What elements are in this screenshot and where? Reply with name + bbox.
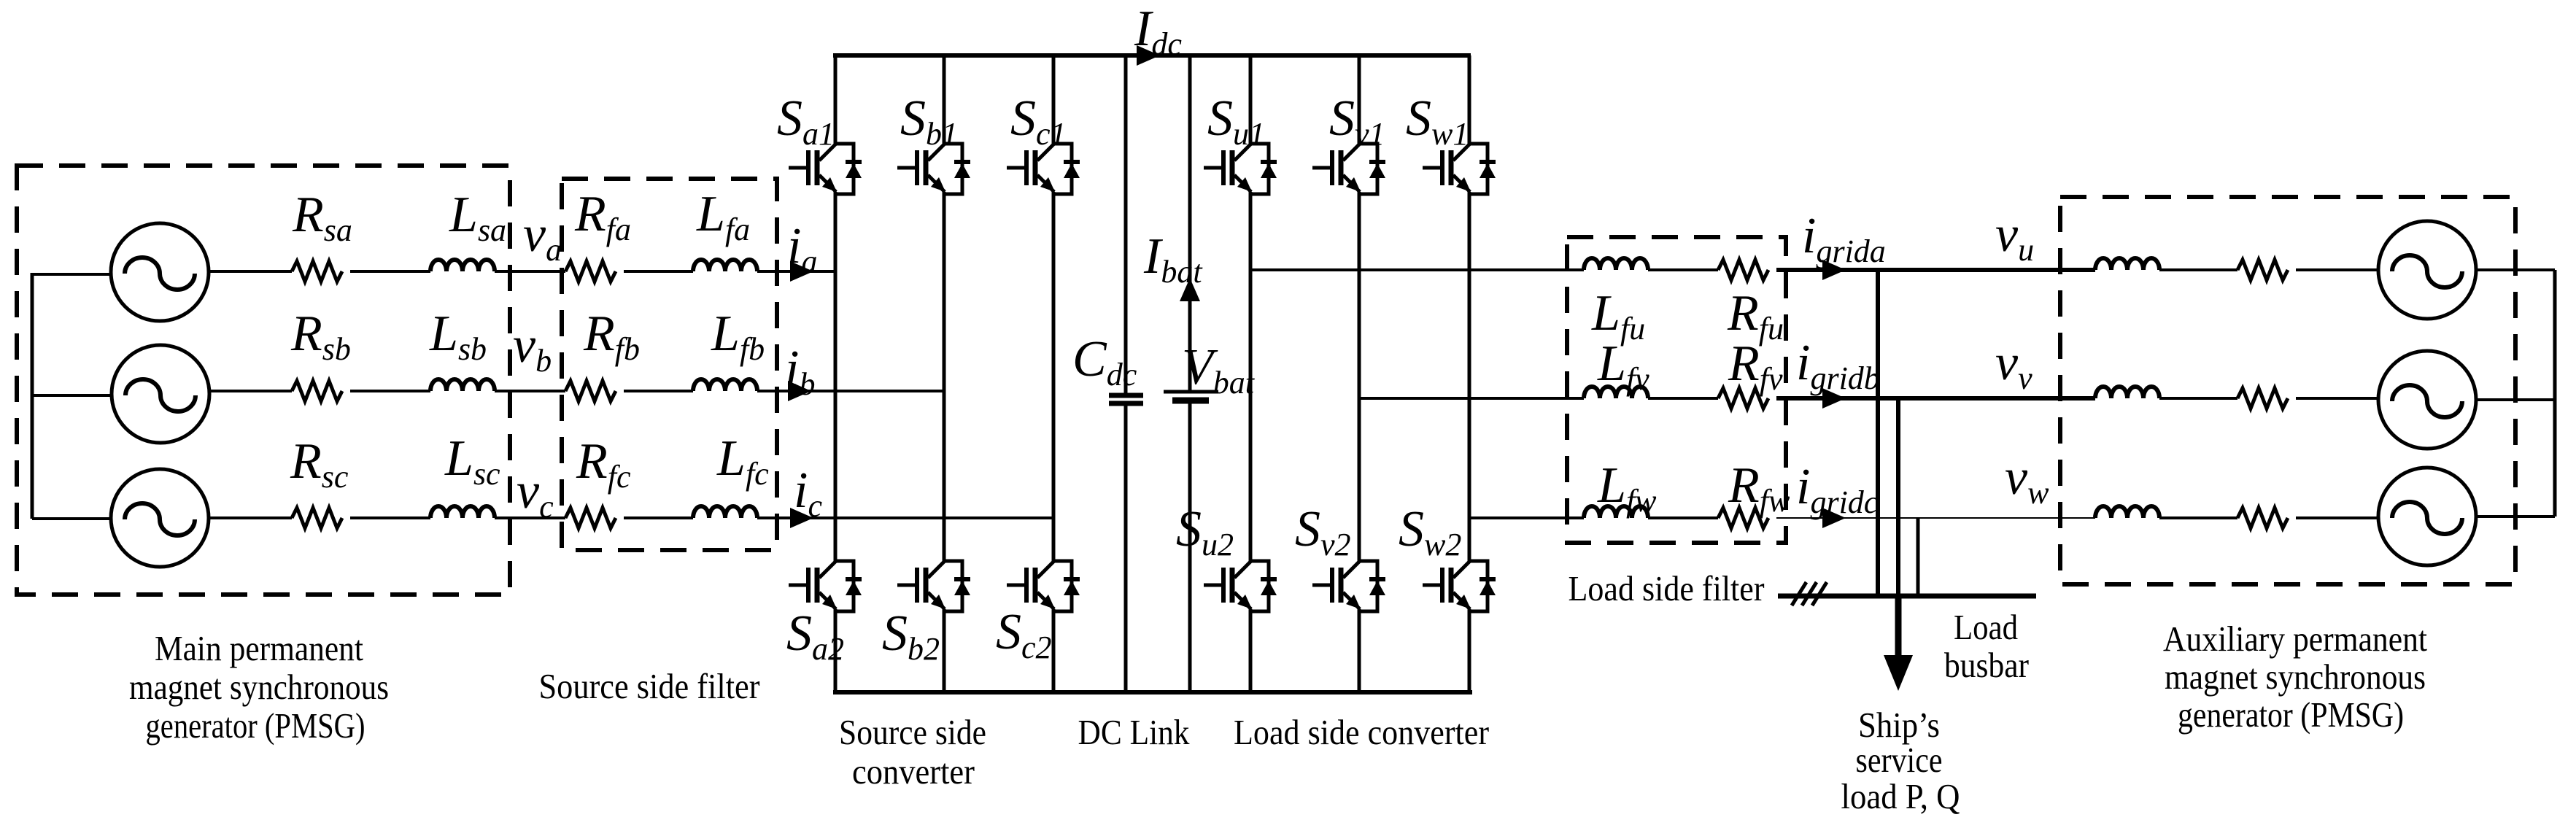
resistor aux u xyxy=(2237,260,2288,280)
wire busbar drop v xyxy=(1896,398,1900,596)
svg-text:generator (PMSG): generator (PMSG) xyxy=(146,705,365,746)
wire phase c xyxy=(209,516,1053,519)
inductor Lsa xyxy=(430,260,495,271)
wire stub phase c xyxy=(32,517,111,520)
svg-text:Main permanent: Main permanent xyxy=(155,628,363,668)
transistor Sa1 xyxy=(789,144,862,194)
AC source aux phase u xyxy=(2378,221,2476,319)
wire stub phase a xyxy=(32,273,111,276)
inductor aux v xyxy=(2095,387,2159,398)
svg-text:busbar: busbar xyxy=(1944,645,2029,685)
wire DC top bus xyxy=(833,53,1471,58)
ground hatch xyxy=(1792,582,1827,605)
wire phase w xyxy=(1469,516,1718,519)
svg-text:service: service xyxy=(1856,740,1943,780)
inductor Lfa xyxy=(693,260,757,271)
AC source aux phase v xyxy=(2378,351,2476,449)
inductor Lfu xyxy=(1584,258,1648,270)
wire column b xyxy=(943,55,946,692)
svg-text:generator (PMSG): generator (PMSG) xyxy=(2178,694,2404,735)
wire phase b xyxy=(209,390,944,392)
resistor aux w xyxy=(2237,508,2288,528)
inductor Lsc xyxy=(430,506,495,518)
resistor Rfb xyxy=(565,381,616,401)
resistor Rfa xyxy=(565,261,616,282)
resistor Rsb xyxy=(292,381,342,401)
resistor Rsa xyxy=(292,261,342,282)
inductor aux w xyxy=(2095,506,2159,518)
svg-text:DC Link: DC Link xyxy=(1078,712,1190,752)
transistor Sb1 xyxy=(897,144,970,194)
AC source main phase c xyxy=(111,469,209,567)
inductor Lfw xyxy=(1584,506,1648,518)
resistor Rfu xyxy=(1718,260,1768,280)
inductor Lsb xyxy=(430,379,495,391)
auxiliary PMSG dashed box xyxy=(2060,197,2515,584)
svg-text:magnet synchronous: magnet synchronous xyxy=(2165,657,2426,697)
transistor Sb2 xyxy=(897,561,970,611)
resistor Rfw xyxy=(1718,508,1768,528)
arrow ia xyxy=(790,261,813,282)
inductor Lfv xyxy=(1584,387,1648,398)
arrow Ibat xyxy=(1180,278,1200,301)
svg-text:Auxiliary permanent: Auxiliary permanent xyxy=(2163,619,2427,659)
capacitor Cdc xyxy=(1109,395,1143,403)
resistor Rfv xyxy=(1718,388,1768,409)
transistor Sw1 xyxy=(1423,144,1496,194)
arrow igrida xyxy=(1822,260,1846,280)
wire Cdc leg xyxy=(1124,55,1128,692)
arrow ic xyxy=(790,508,813,528)
wire busbar drop w xyxy=(1916,518,1920,596)
source side filter dashed box xyxy=(562,179,777,550)
battery Vbat xyxy=(1164,390,1218,394)
wire DC bottom bus xyxy=(833,690,1472,694)
wire left neutral bus xyxy=(31,273,34,519)
transistor Sw2 xyxy=(1423,561,1496,611)
AC source aux phase w xyxy=(2378,468,2476,565)
svg-text:Load side converter: Load side converter xyxy=(1234,712,1489,752)
transistor Sc2 xyxy=(1007,561,1080,611)
wire load busbar xyxy=(1778,594,2036,599)
inductor Lfc xyxy=(693,506,757,518)
svg-text:Load: Load xyxy=(1954,607,2018,647)
main PMSG dashed box xyxy=(17,166,510,595)
arrow ship load xyxy=(1895,596,1902,656)
arrow igridc xyxy=(1822,508,1846,528)
transistor Su2 xyxy=(1204,561,1277,611)
wire column a xyxy=(834,55,838,692)
load side filter dashed box xyxy=(1567,237,1786,543)
svg-text:load P, Q: load P, Q xyxy=(1841,776,1960,816)
wire column c xyxy=(1052,55,1056,692)
wire column u xyxy=(1249,55,1253,692)
transistor Sc1 xyxy=(1007,144,1080,194)
wire column v xyxy=(1358,55,1361,692)
wire busbar drop u xyxy=(1876,270,1880,596)
transistor Su1 xyxy=(1204,144,1277,194)
wire stub phase b xyxy=(32,394,112,397)
transistor Sa2 xyxy=(789,561,862,611)
transistor Sv1 xyxy=(1312,144,1385,194)
wire Vbat leg xyxy=(1188,55,1192,692)
svg-text:magnet synchronous: magnet synchronous xyxy=(129,667,389,707)
svg-text:Source side filter: Source side filter xyxy=(539,666,760,706)
svg-text:Load side filter: Load side filter xyxy=(1569,568,1765,608)
transistor Sv2 xyxy=(1312,561,1385,611)
svg-text:converter: converter xyxy=(852,751,975,792)
svg-text:Source side: Source side xyxy=(839,712,986,752)
inductor aux u xyxy=(2095,258,2159,270)
inductor Lfb xyxy=(693,379,757,391)
wire phase u xyxy=(1250,268,1718,271)
svg-text:Ship’s: Ship’s xyxy=(1858,705,1940,745)
AC source main phase b xyxy=(112,345,209,443)
resistor Rfc xyxy=(565,508,616,528)
wire phase v xyxy=(1359,397,1718,400)
arrow Idc xyxy=(1137,45,1160,66)
AC source main phase a xyxy=(111,223,209,321)
resistor Rsc xyxy=(292,508,342,528)
wire column w xyxy=(1468,55,1471,692)
wire aux right bus xyxy=(2553,270,2557,516)
resistor aux v xyxy=(2237,388,2288,409)
arrow ib xyxy=(788,381,811,401)
wire phase a xyxy=(209,270,835,273)
arrow igridb xyxy=(1822,388,1846,409)
